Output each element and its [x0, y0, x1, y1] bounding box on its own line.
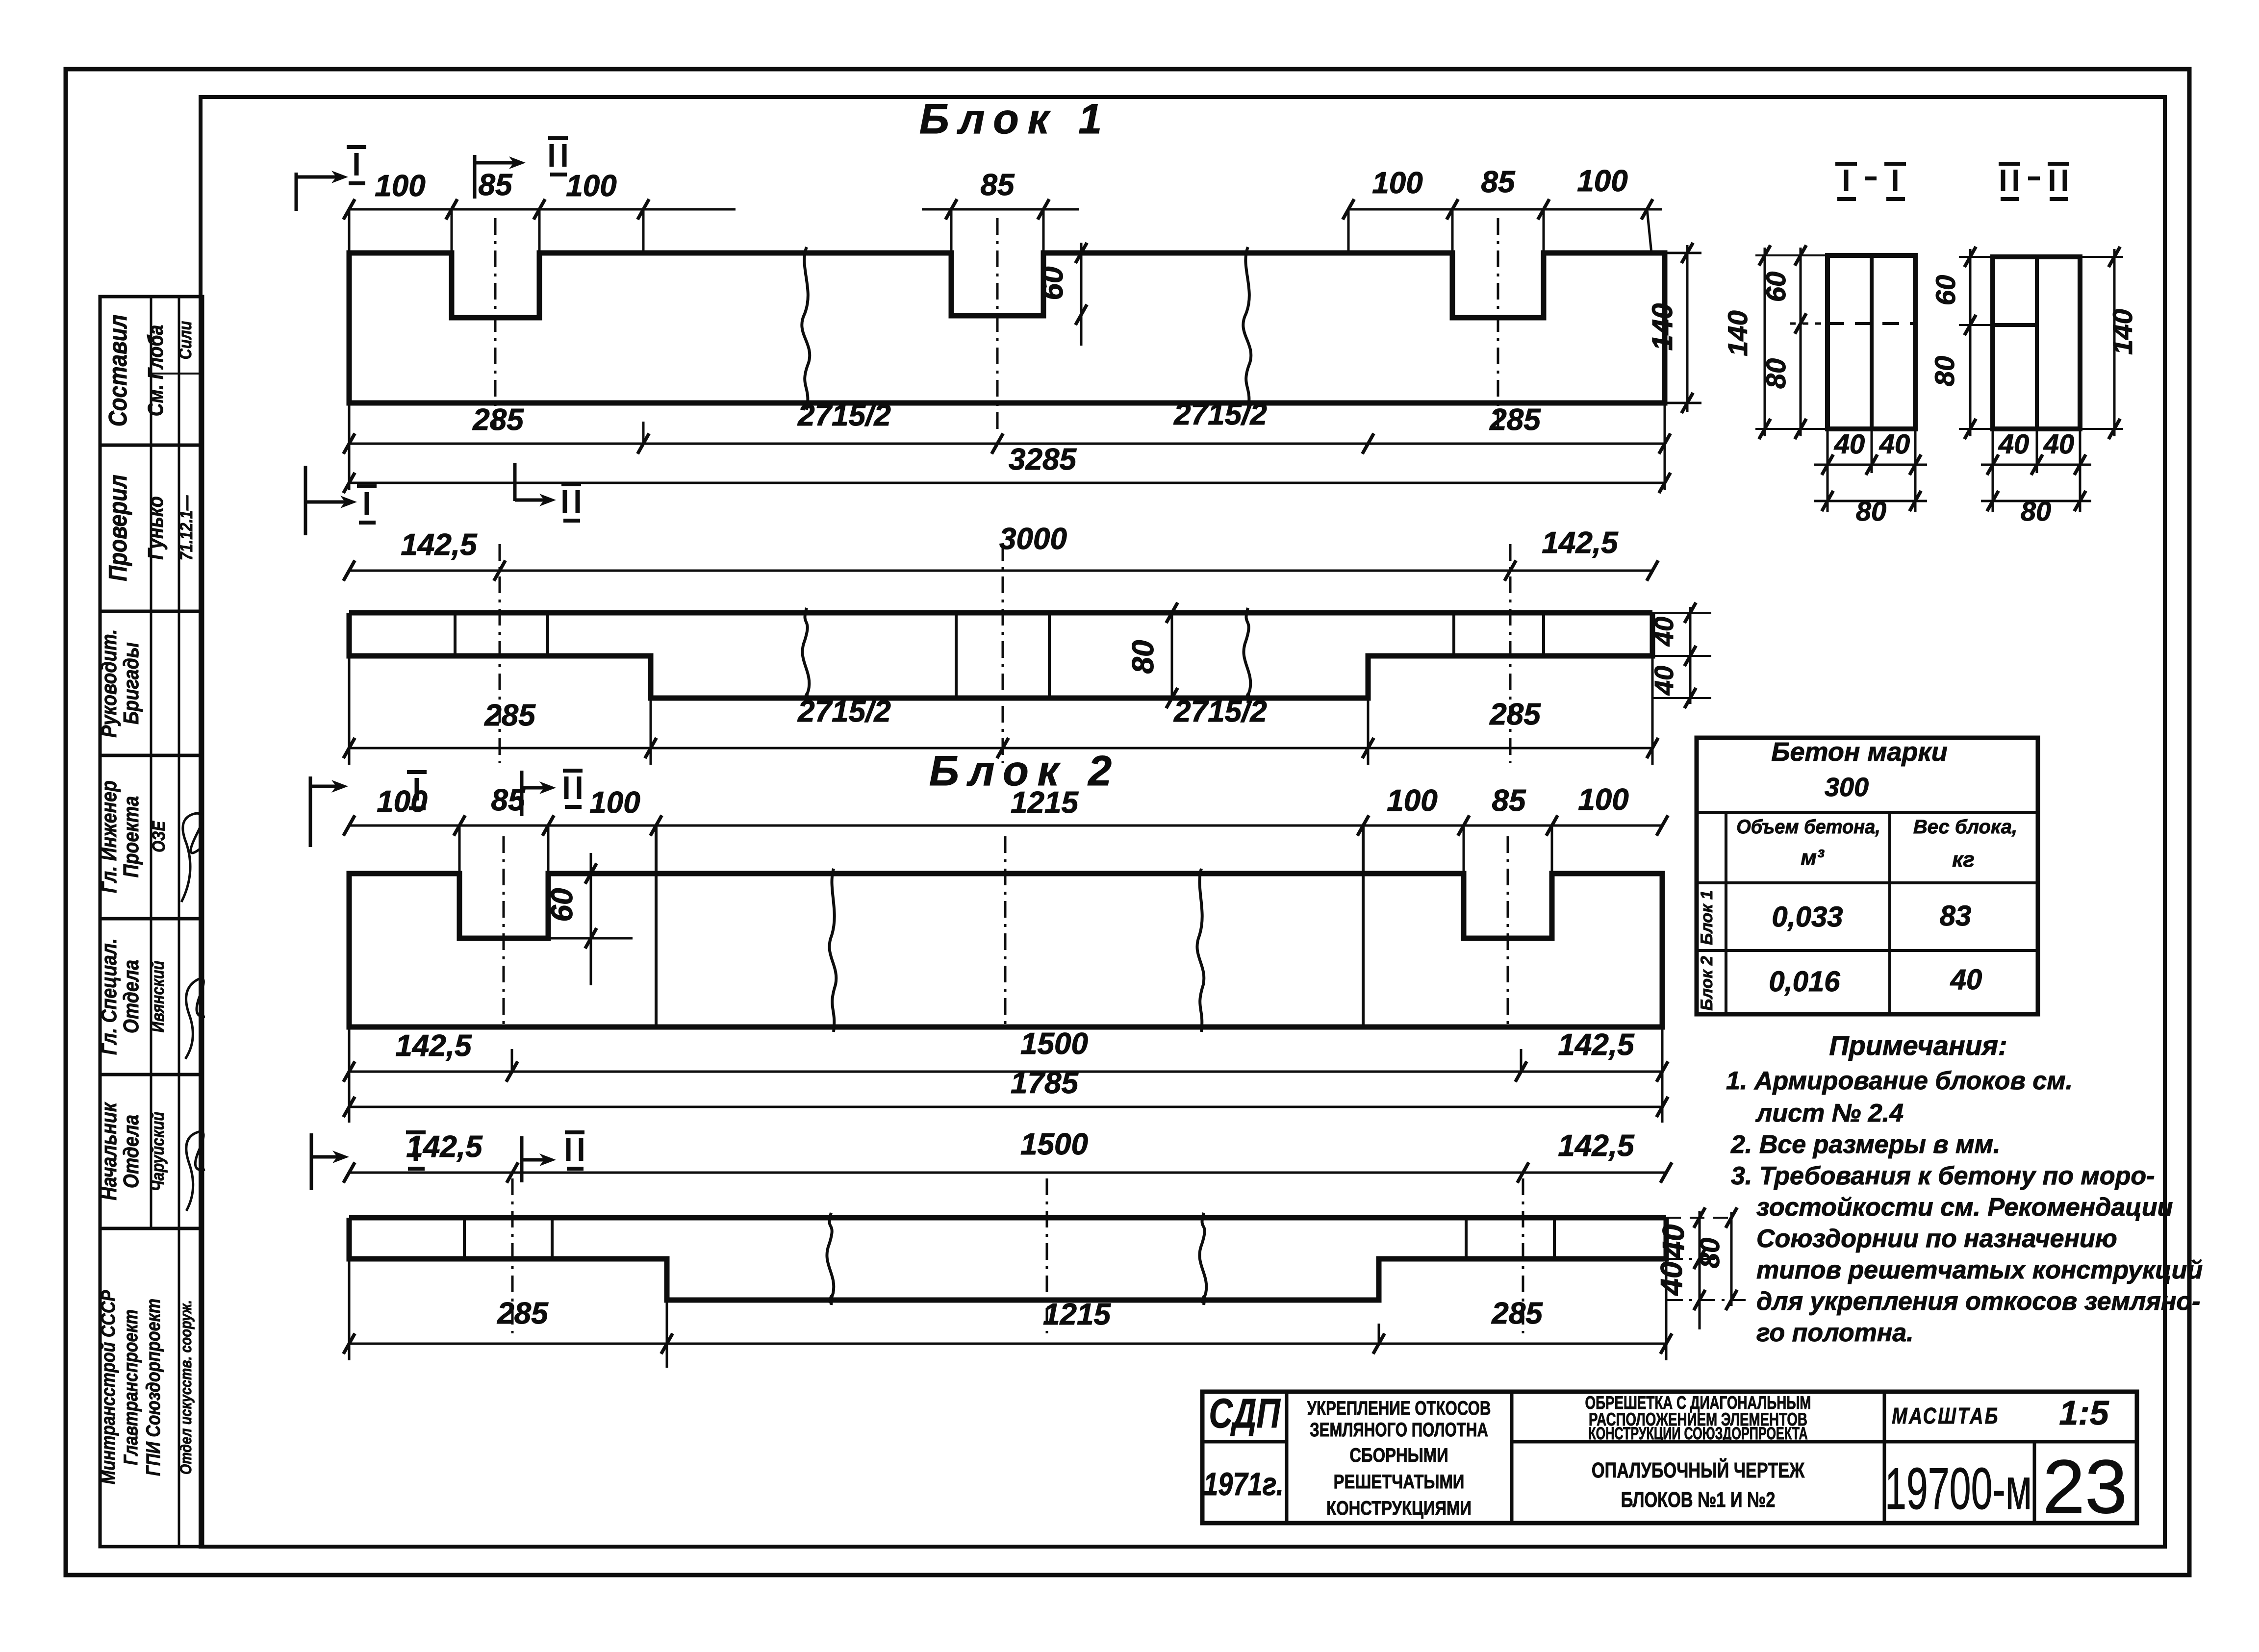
svg-text:2715/2: 2715/2	[1173, 398, 1267, 431]
svg-text:1215: 1215	[1011, 786, 1079, 820]
svg-text:Составил: Составил	[104, 315, 132, 427]
svg-text:зостойкости см. Рекомендации: зостойкости см. Рекомендации	[1756, 1193, 2173, 1222]
svg-text:СДП: СДП	[1209, 1391, 1281, 1437]
svg-text:типов решетчатых конструкций: типов решетчатых конструкций	[1756, 1256, 2203, 1284]
svg-text:го полотна.: го полотна.	[1756, 1319, 1914, 1347]
svg-text:Объем бетона,: Объем бетона,	[1736, 816, 1880, 838]
svg-text:Отдела: Отдела	[119, 1115, 143, 1188]
svg-text:ОПАЛУБОЧНЫЙ ЧЕРТЕЖ: ОПАЛУБОЧНЫЙ ЧЕРТЕЖ	[1592, 1458, 1804, 1482]
svg-text:40: 40	[1650, 666, 1679, 696]
svg-text:142,5: 142,5	[1542, 526, 1619, 560]
svg-text:142,5: 142,5	[1558, 1028, 1635, 1062]
svg-text:КОНСТРУКЦИЯМИ: КОНСТРУКЦИЯМИ	[1326, 1497, 1472, 1519]
svg-text:142,5: 142,5	[406, 1130, 483, 1164]
svg-text:РЕШЕТЧАТЫМИ: РЕШЕТЧАТЫМИ	[1334, 1471, 1465, 1493]
svg-text:140: 140	[1722, 310, 1753, 356]
svg-text:3. Требования к бетону по моро: 3. Требования к бетону по моро-	[1731, 1162, 2155, 1190]
svg-text:МАСШТАБ: МАСШТАБ	[1892, 1403, 1999, 1428]
svg-text:2715/2: 2715/2	[797, 399, 891, 432]
svg-text:100: 100	[375, 169, 425, 203]
svg-text:80: 80	[1856, 496, 1886, 526]
svg-text:1:5: 1:5	[2059, 1394, 2109, 1432]
svg-text:Гл. Инженер: Гл. Инженер	[97, 780, 121, 893]
svg-text:ЗЕМЛЯНОГО ПОЛОТНА: ЗЕМЛЯНОГО ПОЛОТНА	[1310, 1419, 1488, 1441]
svg-text:Сили: Сили	[176, 321, 196, 359]
svg-text:Проекта: Проекта	[119, 796, 143, 877]
svg-text:3285: 3285	[1009, 443, 1077, 476]
svg-text:для укрепления откосов земляно: для укрепления откосов земляно-	[1756, 1287, 2200, 1316]
svg-text:85: 85	[1481, 165, 1516, 199]
svg-text:285: 285	[1489, 698, 1541, 731]
svg-text:100: 100	[1387, 784, 1437, 818]
svg-text:Вес блока,: Вес блока,	[1913, 816, 2017, 838]
svg-text:кг: кг	[1952, 848, 1975, 872]
svg-text:Отдела: Отдела	[119, 960, 143, 1033]
svg-text:Блок 1: Блок 1	[919, 96, 1111, 143]
svg-text:2715/2: 2715/2	[797, 695, 891, 728]
svg-text:Минтрансстрой СССР: Минтрансстрой СССР	[97, 1290, 119, 1484]
svg-text:80: 80	[1694, 1238, 1725, 1268]
svg-text:ГПИ Союздорпроект: ГПИ Союздорпроект	[142, 1299, 164, 1476]
svg-text:40: 40	[1650, 617, 1679, 647]
svg-text:19700-м: 19700-м	[1885, 1456, 2032, 1522]
svg-text:2. Все размеры в мм.: 2. Все размеры в мм.	[1730, 1130, 2000, 1159]
svg-text:м³: м³	[1801, 846, 1825, 870]
svg-text:142,5: 142,5	[401, 528, 478, 562]
svg-text:100: 100	[1577, 164, 1627, 198]
svg-text:Руководит.: Руководит.	[97, 629, 121, 737]
svg-text:40: 40	[1879, 428, 1910, 459]
svg-text:100: 100	[589, 786, 640, 820]
svg-text:142,5: 142,5	[395, 1029, 472, 1063]
svg-text:2715/2: 2715/2	[1173, 695, 1267, 728]
svg-text:85: 85	[479, 168, 513, 202]
svg-text:71.12.1—: 71.12.1—	[177, 495, 197, 560]
svg-text:Начальник: Начальник	[97, 1101, 121, 1200]
svg-text:80: 80	[2021, 496, 2051, 526]
svg-text:83: 83	[1940, 900, 1972, 932]
svg-text:40: 40	[2043, 428, 2074, 459]
svg-text:БЛОКОВ №1 И №2: БЛОКОВ №1 И №2	[1621, 1488, 1776, 1512]
svg-text:Блок 1: Блок 1	[1698, 890, 1716, 945]
svg-text:лист № 2.4: лист № 2.4	[1755, 1099, 1904, 1127]
svg-text:Гунько: Гунько	[143, 496, 168, 559]
svg-text:1785: 1785	[1011, 1066, 1079, 1100]
svg-text:300: 300	[1825, 773, 1869, 802]
svg-text:80: 80	[1126, 640, 1160, 674]
svg-text:80: 80	[1760, 358, 1791, 389]
svg-text:285: 285	[1489, 403, 1541, 437]
svg-text:0,016: 0,016	[1769, 966, 1840, 998]
svg-text:100: 100	[1578, 783, 1628, 817]
svg-text:60: 60	[1760, 272, 1791, 302]
svg-text:0,033: 0,033	[1772, 901, 1843, 933]
svg-text:285: 285	[497, 1297, 549, 1330]
svg-text:См. Глоба: См. Глоба	[143, 325, 168, 417]
svg-text:1500: 1500	[1020, 1127, 1088, 1161]
svg-text:285: 285	[1491, 1297, 1543, 1330]
svg-text:Проверил: Проверил	[104, 475, 132, 581]
svg-text:Чаруйский: Чаруйский	[149, 1112, 168, 1191]
svg-text:1. Армирование блоков см.: 1. Армирование блоков см.	[1726, 1067, 2073, 1095]
svg-text:40: 40	[1998, 428, 2029, 459]
svg-text:140: 140	[1647, 303, 1678, 351]
svg-text:Бригады: Бригады	[119, 642, 143, 725]
svg-text:КОНСТРУКЦИИ СОЮЗДОРПРОЕКТА: КОНСТРУКЦИИ СОЮЗДОРПРОЕКТА	[1588, 1424, 1807, 1443]
svg-text:100: 100	[1372, 166, 1422, 200]
svg-text:40: 40	[1655, 1262, 1689, 1297]
svg-text:Ивянский: Ивянский	[149, 961, 168, 1032]
svg-text:60: 60	[545, 888, 579, 922]
svg-text:85: 85	[981, 168, 1015, 202]
svg-text:1971г.: 1971г.	[1203, 1466, 1284, 1502]
svg-text:60: 60	[1930, 275, 1961, 305]
svg-text:Отдел искусств. сооруж.: Отдел искусств. сооруж.	[178, 1300, 195, 1475]
svg-text:100: 100	[566, 169, 616, 203]
svg-text:40: 40	[1834, 428, 1865, 459]
svg-text:85: 85	[1492, 784, 1526, 818]
svg-text:142,5: 142,5	[1558, 1129, 1635, 1163]
svg-text:285: 285	[484, 699, 536, 732]
svg-text:80: 80	[1929, 356, 1960, 386]
svg-text:40: 40	[1657, 1225, 1691, 1259]
svg-text:100: 100	[377, 785, 427, 819]
svg-text:23: 23	[2043, 1444, 2127, 1529]
svg-text:Бетон марки: Бетон марки	[1771, 737, 1948, 767]
svg-text:УКРЕПЛЕНИЕ ОТКОСОВ: УКРЕПЛЕНИЕ ОТКОСОВ	[1307, 1397, 1491, 1419]
svg-text:140: 140	[2107, 309, 2138, 354]
svg-text:Блок 2: Блок 2	[1698, 956, 1716, 1011]
svg-text:285: 285	[472, 403, 524, 437]
svg-text:ОЗЕ: ОЗЕ	[150, 820, 169, 852]
svg-text:Союздорнии по назначению: Союздорнии по назначению	[1756, 1225, 2117, 1253]
svg-text:Гл. Специал.: Гл. Специал.	[97, 938, 121, 1055]
svg-text:60: 60	[1036, 267, 1069, 300]
svg-text:Примечания:: Примечания:	[1829, 1030, 2007, 1061]
svg-text:СБОРНЫМИ: СБОРНЫМИ	[1349, 1444, 1448, 1466]
svg-text:1215: 1215	[1043, 1298, 1111, 1331]
svg-text:1500: 1500	[1020, 1027, 1088, 1061]
svg-text:Главтранспроект: Главтранспроект	[119, 1309, 141, 1465]
svg-text:40: 40	[1950, 964, 1982, 996]
svg-text:3000: 3000	[999, 522, 1067, 556]
